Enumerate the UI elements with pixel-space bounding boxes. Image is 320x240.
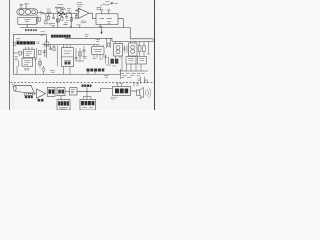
svg-text:5%: 5%	[24, 68, 29, 72]
